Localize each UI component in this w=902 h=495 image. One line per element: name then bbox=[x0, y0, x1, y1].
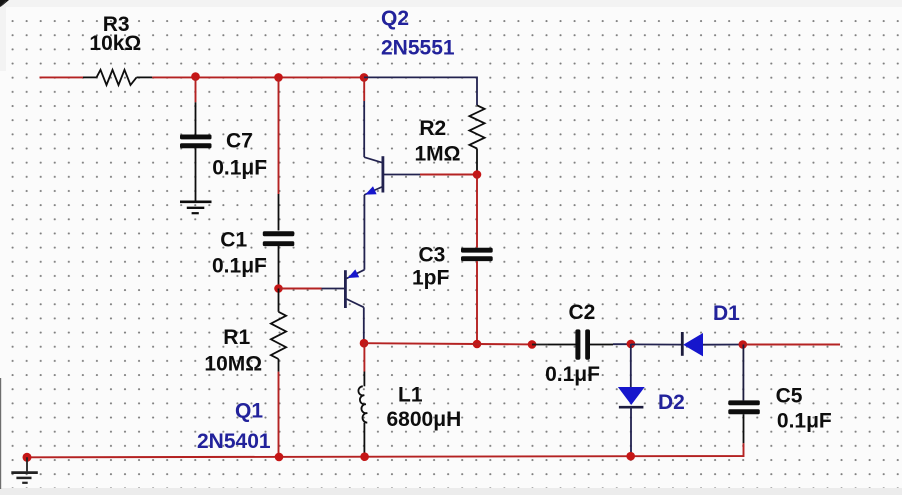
ground below C7 bbox=[180, 202, 212, 213]
svg-text:Q1: Q1 bbox=[235, 400, 263, 423]
svg-text:10MΩ: 10MΩ bbox=[204, 353, 262, 376]
capacitor C1 bbox=[263, 194, 295, 289]
wire L1 stub bbox=[363, 343, 365, 371]
svg-text:C7: C7 bbox=[226, 130, 253, 153]
svg-text:0.1μF: 0.1μF bbox=[545, 363, 600, 386]
node junction R1 rail bbox=[275, 453, 284, 462]
resistor R1 bbox=[271, 289, 286, 372]
node junction D2 rail bbox=[626, 452, 635, 461]
svg-text:L1: L1 bbox=[398, 384, 423, 407]
node junction output spare bbox=[528, 340, 537, 349]
wire output row red bbox=[364, 343, 532, 344]
Q1 emitter arrow bbox=[348, 269, 359, 278]
capacitor C7 bbox=[180, 102, 212, 200]
wire C3 upper bbox=[476, 175, 478, 248]
svg-text:10kΩ: 10kΩ bbox=[89, 32, 141, 55]
wire R1 to ground rail bbox=[278, 372, 280, 457]
node junction R2/C3/Q2 base bbox=[473, 170, 482, 179]
node junction L1 rail bbox=[360, 452, 369, 461]
svg-text:1MΩ: 1MΩ bbox=[415, 143, 461, 166]
wire Q2 base to R2 node bbox=[420, 174, 477, 176]
svg-text:0.1μF: 0.1μF bbox=[777, 410, 832, 433]
wire C3 lower bbox=[476, 261, 478, 344]
svg-text:R2: R2 bbox=[419, 117, 446, 140]
resistor R2 bbox=[469, 105, 484, 174]
wire C1 feed bbox=[278, 77, 280, 194]
wire supply rail left segment bbox=[40, 76, 84, 78]
transistor Q2 2N5551 bbox=[364, 156, 420, 195]
node junction Q2 collector bbox=[360, 73, 369, 82]
svg-text:C2: C2 bbox=[569, 301, 596, 324]
wire C5 upper bbox=[742, 345, 744, 401]
svg-text:0.1μF: 0.1μF bbox=[212, 255, 267, 278]
svg-text:2N5401: 2N5401 bbox=[197, 430, 271, 453]
svg-text:C3: C3 bbox=[419, 244, 446, 267]
wire C2 to D2 node bbox=[613, 343, 631, 345]
svg-text:C1: C1 bbox=[220, 229, 247, 252]
capacitor C5 bbox=[728, 400, 760, 443]
wire Q1 base bbox=[279, 288, 322, 290]
ground GND main bbox=[11, 457, 38, 483]
node junction C1 bbox=[274, 73, 283, 82]
wire D2 node to D1 bbox=[631, 343, 682, 345]
svg-text:6800μH: 6800μH bbox=[387, 408, 462, 431]
svg-text:2N5551: 2N5551 bbox=[381, 37, 455, 60]
capacitor C3 bbox=[461, 248, 493, 261]
wire C5 to ground rail bbox=[27, 443, 744, 457]
svg-text:D2: D2 bbox=[658, 391, 685, 414]
wire R2 feed from rail bbox=[364, 77, 477, 105]
svg-text:1pF: 1pF bbox=[412, 267, 450, 290]
wire Q2 collector red stub bbox=[363, 77, 365, 101]
wire D2 anode bbox=[630, 344, 632, 387]
node junction D2 bbox=[627, 340, 636, 349]
diode D2 bbox=[618, 387, 645, 456]
node junction Q1 base bbox=[274, 284, 283, 293]
capacitor C2 bbox=[548, 329, 613, 359]
wire to C2 bbox=[532, 344, 548, 346]
wire Q1 collector stub bbox=[363, 307, 365, 343]
svg-text:D1: D1 bbox=[713, 302, 740, 325]
svg-text:Q2: Q2 bbox=[381, 7, 409, 30]
wire Q2 collector bbox=[363, 101, 365, 157]
node junction C5 bbox=[739, 340, 748, 349]
node junction C7 bbox=[191, 72, 200, 81]
transistor Q1 2N5401 bbox=[322, 270, 365, 308]
wire supply rail right segment bbox=[152, 76, 364, 78]
diode D1 bbox=[682, 332, 743, 356]
svg-text:C5: C5 bbox=[776, 384, 803, 407]
inductor L1 bbox=[358, 372, 367, 458]
wire C7 stub bbox=[195, 77, 197, 102]
svg-text:0.1μF: 0.1μF bbox=[212, 157, 267, 180]
node junction output mid bbox=[473, 340, 482, 349]
wire emitter link Q1-Q2 bbox=[363, 195, 365, 270]
svg-text:R1: R1 bbox=[223, 326, 250, 349]
resistor R3 bbox=[83, 70, 152, 85]
node junction ground rail left bbox=[23, 453, 32, 462]
Q2 emitter arrow bbox=[365, 186, 376, 194]
node junction output left bbox=[360, 339, 369, 348]
wire output right open bbox=[743, 344, 840, 346]
